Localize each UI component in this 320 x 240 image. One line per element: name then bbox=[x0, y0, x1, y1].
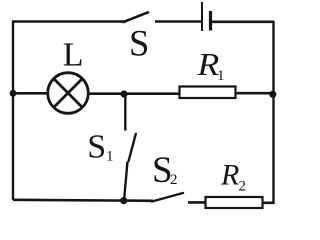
battery short plate bbox=[209, 11, 212, 31]
svg-text:2: 2 bbox=[170, 172, 178, 188]
lamp L bbox=[48, 73, 89, 114]
wire: top middle segment to battery bbox=[155, 20, 202, 23]
switch S2 blade bbox=[152, 193, 183, 202]
svg-text:L: L bbox=[63, 37, 84, 74]
resistor R1 bbox=[180, 87, 236, 99]
wire: R2 to right frame bbox=[263, 202, 275, 205]
node: bottom wire / S1 junction bbox=[120, 197, 127, 204]
svg-text:1: 1 bbox=[217, 68, 225, 84]
wire: top right segment bbox=[211, 20, 275, 23]
svg-text:S: S bbox=[129, 23, 149, 64]
switch S1 blade bbox=[129, 134, 136, 161]
wire: S1 lower vertical bbox=[124, 162, 128, 202]
wire: left frame vertical bbox=[12, 21, 14, 200]
battery long plate bbox=[201, 2, 203, 31]
wire: R1 to right frame bbox=[236, 92, 274, 95]
node: middle wire / right frame junction bbox=[269, 91, 276, 98]
wire: middle left to lamp bbox=[13, 92, 48, 95]
svg-text:2: 2 bbox=[239, 178, 247, 194]
svg-text:R: R bbox=[220, 159, 239, 192]
svg-text:1: 1 bbox=[106, 149, 114, 165]
wire: lamp to R1 bbox=[88, 92, 180, 95]
wire: S2 to R2 bbox=[188, 201, 206, 204]
svg-text:S: S bbox=[87, 129, 106, 166]
wire: S1 upper vertical bbox=[124, 94, 126, 131]
resistor R2 bbox=[206, 197, 263, 208]
node: left frame / lamp wire junction bbox=[10, 90, 17, 97]
wire: top left segment bbox=[12, 20, 124, 23]
wire: bottom left segment bbox=[13, 200, 153, 201]
svg-text:R: R bbox=[196, 48, 219, 83]
wire: right frame vertical bbox=[272, 21, 274, 204]
switch S blade bbox=[124, 12, 149, 22]
node: middle wire / S1 junction bbox=[120, 90, 127, 97]
